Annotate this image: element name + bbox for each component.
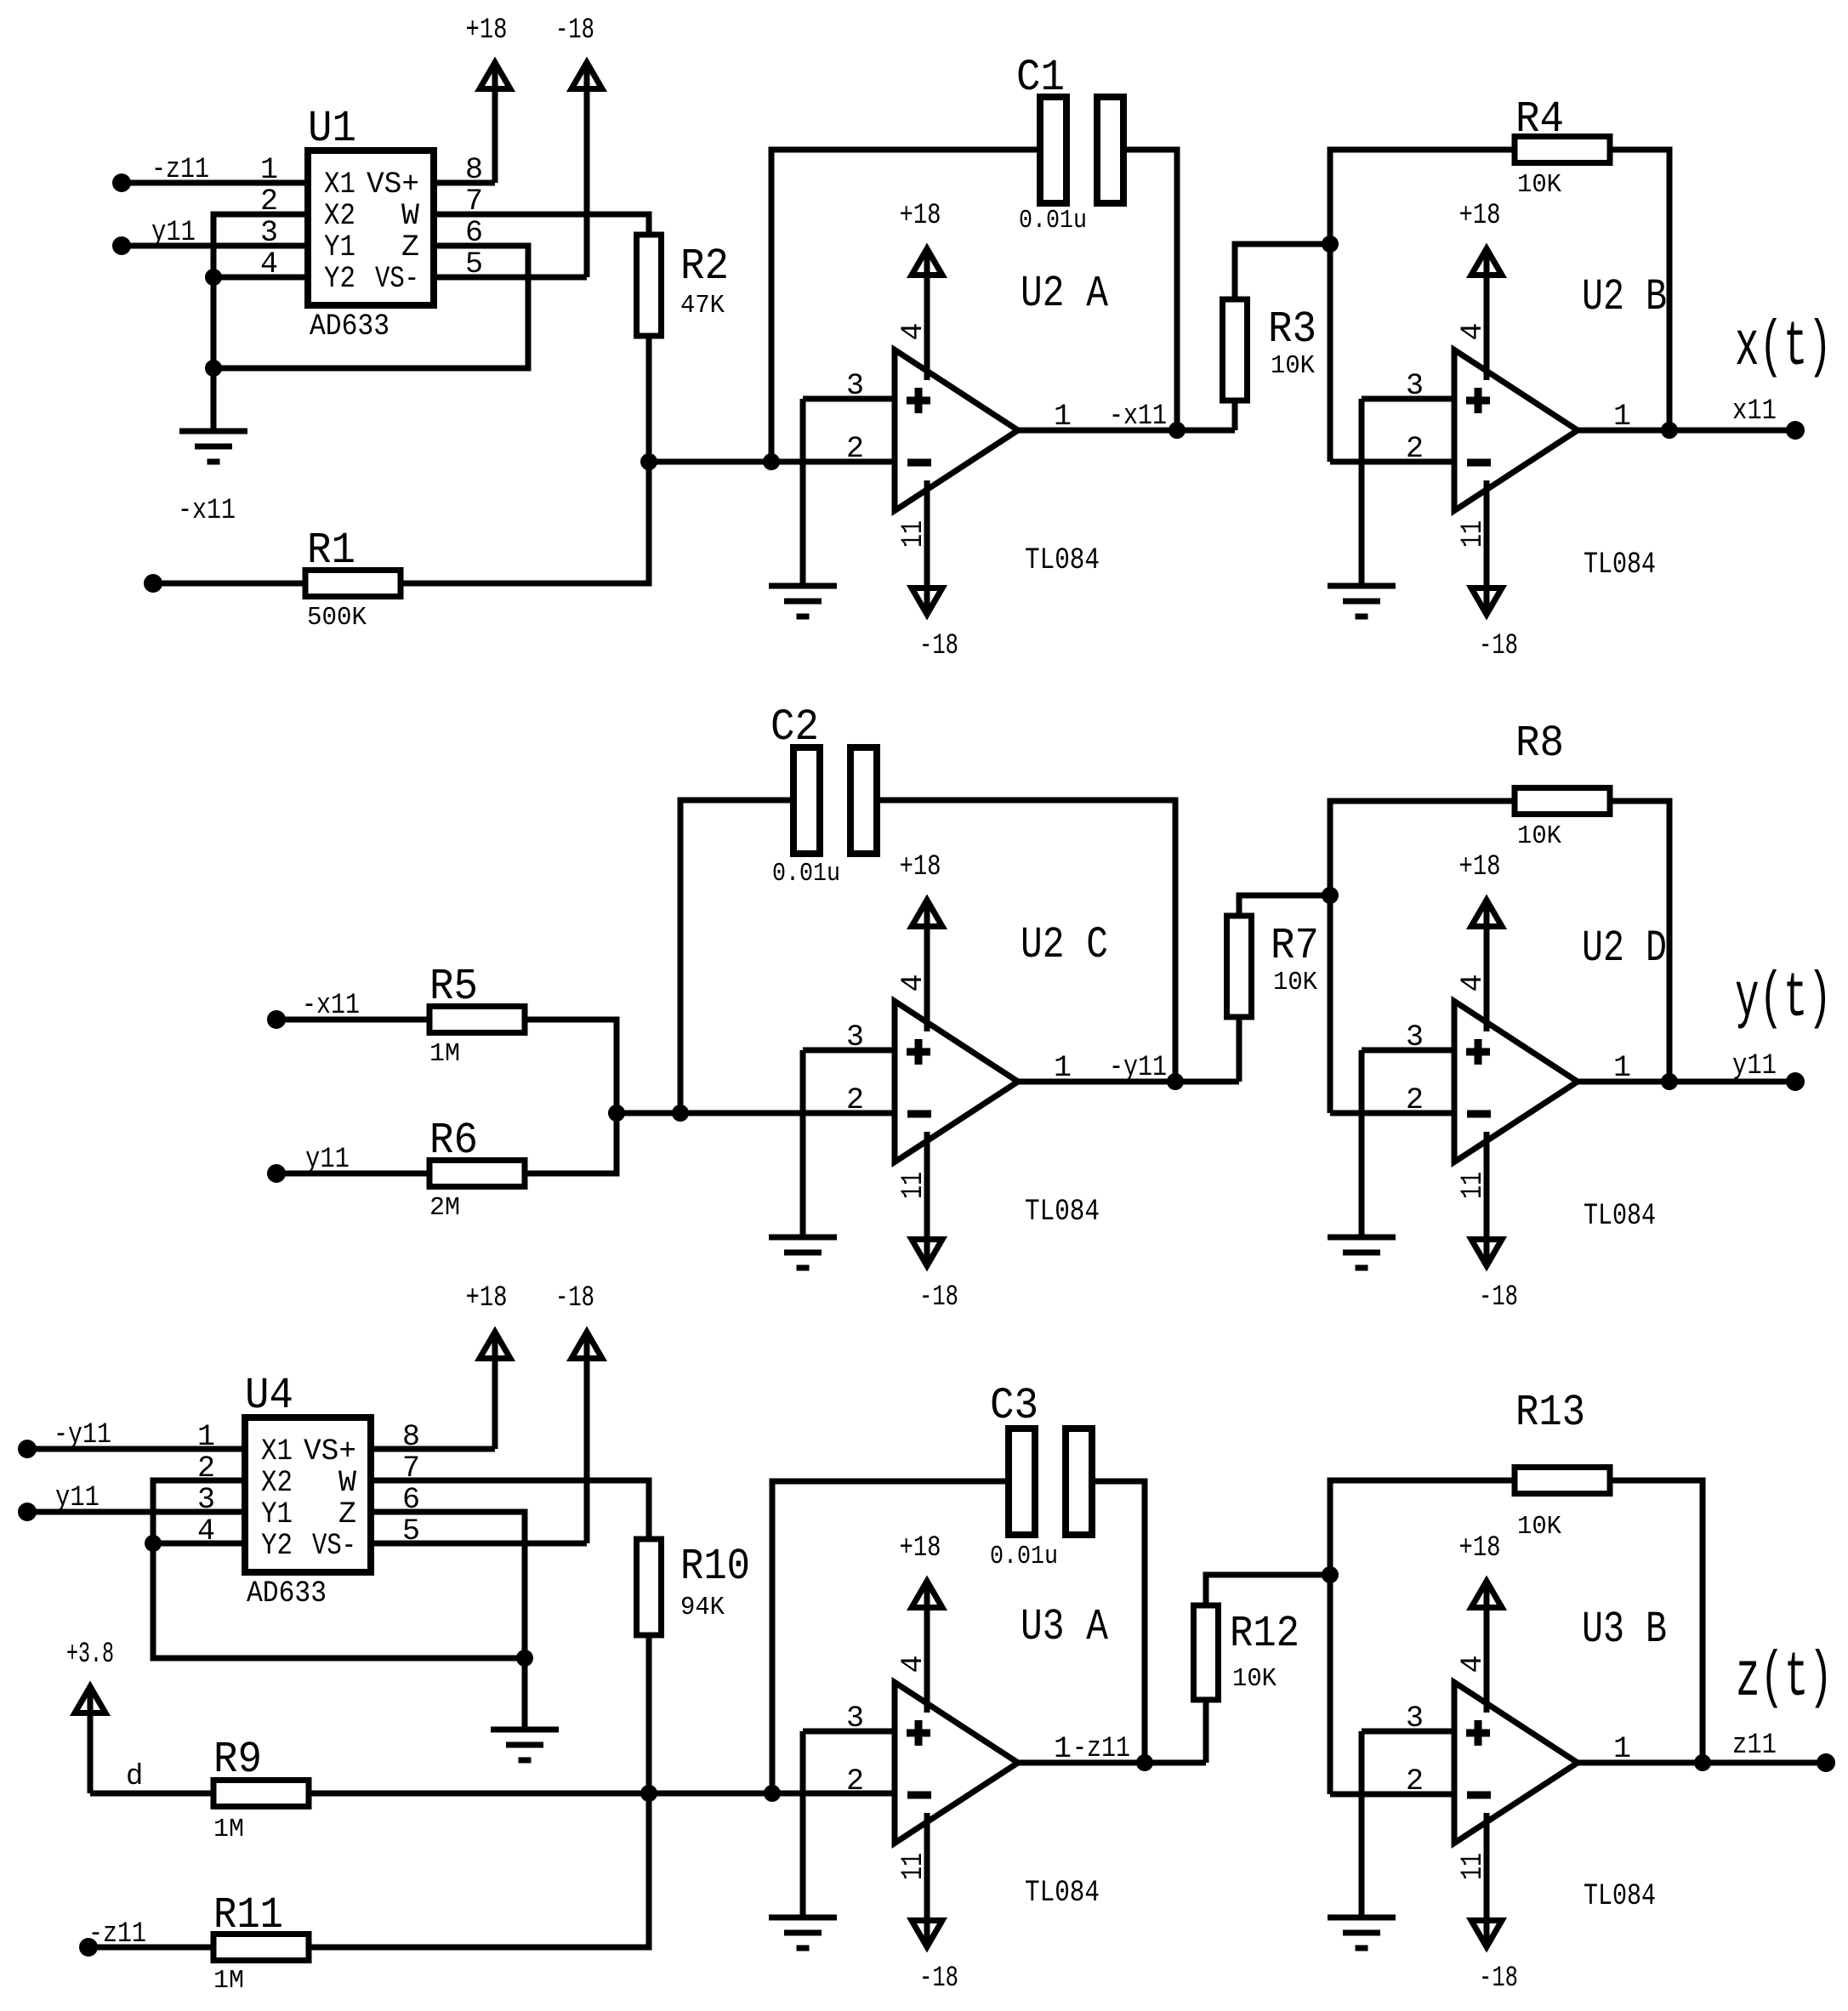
U3A +18 label	[900, 1532, 941, 1565]
IC U4 (AD633 multiplier)	[245, 1371, 371, 1572]
U2C pin number 2	[846, 1083, 864, 1117]
wire U2A output	[1018, 428, 1235, 434]
junction y11 node	[1661, 1073, 1678, 1090]
svg-text:+18: +18	[1459, 200, 1501, 232]
R11 value 1M	[213, 1966, 244, 1996]
resistor R1 input wire	[153, 581, 304, 587]
svg-text:+18: +18	[900, 851, 941, 883]
svg-text:y(t): y(t)	[1735, 963, 1832, 1035]
U1 pin numbers	[260, 153, 483, 281]
svg-text:U3 B: U3 B	[1582, 1605, 1667, 1655]
terminal y11 row2	[267, 1164, 286, 1183]
wire R7 top to U2D input	[1239, 895, 1330, 916]
svg-text:X2: X2	[324, 199, 355, 233]
C1 label	[1016, 53, 1065, 103]
svg-text:0.01u: 0.01u	[772, 859, 840, 889]
wire U2D +input to ground	[1359, 1050, 1365, 1237]
U2D TL084 label	[1584, 1199, 1656, 1233]
resistor R4 body	[1515, 137, 1610, 163]
svg-text:10K: 10K	[1517, 1512, 1561, 1542]
terminal -x11 row2	[267, 1010, 286, 1029]
ground under U4	[491, 1730, 559, 1760]
terminal y11 out	[1786, 1072, 1805, 1091]
wire -z11 to R11	[88, 1945, 213, 1951]
capacitor C3 right plate	[1066, 1429, 1092, 1535]
C3 value 0.01u	[990, 1542, 1058, 1571]
wire U1 Z feedback	[213, 246, 528, 368]
net label x11	[1732, 395, 1777, 428]
svg-text:500K: 500K	[307, 603, 367, 633]
capacitor C3 left plate	[1009, 1429, 1035, 1535]
R12 label	[1230, 1609, 1299, 1659]
svg-text:z11: z11	[1732, 1730, 1777, 1762]
wire U4 pin 4 Y2	[153, 1541, 245, 1547]
svg-text:AD633: AD633	[247, 1576, 327, 1611]
junction U4 pin4	[145, 1535, 162, 1552]
wire U2B output x11	[1578, 428, 1795, 434]
U2C pin number 3	[846, 1020, 864, 1054]
op-amp U3B	[1454, 1683, 1578, 1843]
U3B pin 11 power	[1471, 1813, 1502, 1947]
wire U2A +input to ground	[800, 399, 806, 586]
U3B pin 4 label	[1456, 1655, 1490, 1673]
junction R2/R1 node	[640, 453, 657, 470]
junction R5/R6 sum node	[608, 1105, 625, 1122]
U2A pin number 2	[846, 432, 864, 466]
U3A pin 4 label	[896, 1655, 930, 1673]
wire R1 to R2 node	[401, 462, 649, 583]
R10 label	[680, 1542, 750, 1592]
power label +18 row1 left	[466, 14, 508, 47]
svg-text:TL084: TL084	[1584, 548, 1656, 582]
svg-text:y11: y11	[305, 1144, 350, 1176]
svg-text:U1: U1	[308, 104, 356, 154]
U2B pin 11 label	[1456, 520, 1490, 548]
net label -y11	[54, 1419, 111, 1451]
svg-text:x(t): x(t)	[1735, 312, 1832, 383]
power label -18 row3 left	[555, 1282, 594, 1315]
U2C pin 11 label	[896, 1172, 930, 1199]
U2C +18 label	[900, 851, 941, 883]
svg-text:R4: R4	[1515, 94, 1564, 145]
U2D pin 4 label	[1456, 974, 1490, 991]
R8 label	[1515, 719, 1564, 769]
U3A pin 4 power	[912, 1582, 942, 1713]
U3A pin number 1	[1054, 1732, 1072, 1766]
svg-text:TL084: TL084	[1025, 543, 1100, 577]
U2C TL084 label	[1025, 1195, 1100, 1229]
junction R9/R10/R11 node	[640, 1785, 657, 1802]
svg-text:3: 3	[1406, 1701, 1424, 1735]
resistor R8 body	[1515, 788, 1610, 815]
U3A pin 11 label	[896, 1853, 930, 1880]
R11 label	[213, 1890, 283, 1940]
wire U2B inverting input	[1330, 459, 1454, 465]
terminal x11	[1786, 421, 1805, 440]
resistor R9 body	[213, 1781, 309, 1807]
R3 label	[1268, 304, 1316, 355]
R2 label	[680, 241, 729, 292]
C2 value 0.01u	[772, 859, 840, 889]
power label +3.8	[66, 1639, 114, 1671]
svg-text:Z: Z	[338, 1497, 356, 1531]
svg-text:-x11: -x11	[302, 990, 360, 1022]
junction -x11 node	[1169, 422, 1186, 439]
resistor R11 body	[213, 1934, 309, 1961]
U2C label	[1021, 920, 1108, 970]
svg-text:11: 11	[896, 1172, 930, 1199]
ground under U1	[179, 431, 247, 462]
svg-text:C1: C1	[1016, 53, 1065, 103]
ground under U2C	[769, 1237, 837, 1268]
junction z11 node	[1694, 1754, 1711, 1771]
net label y11 row3	[55, 1482, 100, 1514]
wire R3 top to U2B input	[1235, 244, 1330, 299]
svg-text:11: 11	[896, 520, 930, 548]
output label x(t)	[1735, 312, 1832, 383]
U4 pin numbers	[197, 1420, 420, 1548]
wire R5 to sum node	[525, 1020, 617, 1113]
svg-text:y11: y11	[151, 217, 196, 249]
wire U2D non-inverting input	[1362, 1048, 1454, 1054]
U3B pin number 3	[1406, 1701, 1424, 1735]
svg-text:4: 4	[1456, 1655, 1490, 1673]
svg-text:R11: R11	[213, 1890, 283, 1940]
wire U3A inverting input net	[309, 1791, 895, 1797]
U3A pin 11 power	[912, 1813, 942, 1947]
U2A label	[1021, 269, 1109, 319]
wire y11 input to U1 pin 3	[122, 243, 308, 249]
resistor R12 body	[1194, 1605, 1219, 1700]
C1 value 0.01u	[1019, 206, 1087, 236]
net label z11	[1732, 1730, 1777, 1762]
U2B -18 label	[1479, 630, 1518, 662]
svg-text:2: 2	[1406, 1764, 1424, 1798]
wire U4 Z pin branch	[371, 1512, 525, 1658]
svg-text:-18: -18	[919, 1963, 958, 1995]
svg-text:10K: 10K	[1517, 821, 1561, 851]
junction C3 left	[764, 1785, 781, 1802]
svg-text:-18: -18	[1479, 1281, 1518, 1314]
power label +18 row3 left	[466, 1282, 508, 1315]
svg-text:10K: 10K	[1232, 1664, 1277, 1694]
svg-text:TL084: TL084	[1025, 1876, 1100, 1910]
power label -18 row1 left	[555, 14, 594, 47]
svg-text:Z: Z	[401, 230, 419, 264]
svg-text:94K: 94K	[680, 1593, 725, 1622]
U2D pin number 3	[1406, 1020, 1424, 1054]
junction Z feedback	[205, 360, 222, 377]
svg-text:U2 C: U2 C	[1021, 920, 1108, 970]
wire U3A non-inverting input	[803, 1729, 895, 1735]
svg-text:-18: -18	[555, 14, 594, 47]
wire y11 to R6	[276, 1171, 429, 1177]
wire R12 bottom lead	[1203, 1700, 1209, 1763]
wire C3 right to output node	[1092, 1481, 1145, 1763]
ground under U2B	[1328, 586, 1396, 616]
resistor R10 body	[637, 1539, 662, 1635]
wire C2 left branch	[680, 800, 793, 1113]
svg-text:R9: R9	[213, 1735, 262, 1785]
svg-text:+18: +18	[466, 14, 508, 47]
svg-text:11: 11	[1456, 1853, 1490, 1880]
C3 label	[990, 1381, 1038, 1431]
wire U2B feedback left	[1330, 150, 1515, 462]
svg-text:-18: -18	[1479, 1963, 1518, 1995]
resistor R7 body	[1227, 916, 1252, 1017]
wire U2D inverting input	[1330, 1111, 1454, 1116]
svg-text:X1: X1	[261, 1434, 293, 1468]
svg-text:-z11: -z11	[1072, 1733, 1130, 1765]
svg-text:1M: 1M	[213, 1815, 244, 1844]
U3B TL084 label	[1584, 1879, 1656, 1913]
U2C pin 11 power	[912, 1132, 942, 1266]
wire U1 pin 8 VS+	[434, 180, 495, 186]
svg-text:C2: C2	[770, 702, 819, 753]
wire R3 bottom lead	[1232, 400, 1238, 430]
wire U2C inverting input net	[617, 1111, 895, 1116]
svg-text:Y1: Y1	[261, 1497, 293, 1531]
resistor R2 body	[637, 235, 662, 336]
terminal y11 row3	[18, 1503, 37, 1521]
wire U3B output z11	[1578, 1760, 1826, 1766]
capacitor C2 right plate	[850, 747, 877, 854]
net label y11 row2	[305, 1144, 350, 1176]
U2C pin number 1	[1054, 1051, 1072, 1085]
net label -x11 row2	[302, 990, 360, 1022]
U2B pin number 3	[1406, 369, 1424, 403]
svg-text:R1: R1	[307, 525, 355, 576]
svg-text:d: d	[126, 1761, 143, 1793]
junction C2 left	[672, 1105, 689, 1122]
wire U4 pin 8 VS+	[371, 1446, 495, 1452]
wire U1 pin 4 Y2	[213, 275, 308, 281]
output label z(t)	[1736, 1643, 1833, 1714]
svg-text:10K: 10K	[1517, 170, 1561, 200]
svg-text:2M: 2M	[429, 1193, 460, 1223]
svg-text:3: 3	[846, 369, 864, 403]
svg-text:AD633: AD633	[310, 310, 390, 344]
resistor R3 body	[1223, 299, 1248, 400]
svg-text:4: 4	[896, 974, 930, 991]
wire R10 bottom to node	[646, 1635, 652, 1793]
svg-text:-z11: -z11	[88, 1918, 146, 1951]
svg-text:-z11: -z11	[151, 154, 209, 186]
svg-text:11: 11	[1456, 1172, 1490, 1199]
junction R7/U2D node	[1322, 887, 1339, 904]
U2A TL084 label	[1025, 543, 1100, 577]
svg-text:R12: R12	[1230, 1609, 1299, 1659]
wire C1 right to output node	[1123, 150, 1177, 430]
net label -x11 row1	[178, 495, 236, 527]
U2B pin 4 power	[1471, 249, 1502, 381]
wire U3A +input to ground	[800, 1731, 806, 1917]
svg-text:-18: -18	[555, 1282, 594, 1315]
U2D pin 4 power	[1471, 900, 1502, 1032]
U2A pin number 1	[1054, 400, 1072, 434]
U2B pin 11 power	[1471, 480, 1502, 615]
U3A -18 label	[919, 1963, 958, 1995]
op-amp U2A	[895, 350, 1018, 511]
U3A pin number 3	[846, 1701, 864, 1735]
svg-text:10K: 10K	[1271, 351, 1315, 381]
wire y11 input to U4 pin 3	[27, 1509, 245, 1515]
R5 label	[429, 962, 478, 1012]
junction -z11 node	[1136, 1754, 1153, 1771]
R6 label	[429, 1116, 478, 1166]
svg-text:X1: X1	[324, 168, 355, 202]
terminal -z11 row3	[79, 1938, 98, 1957]
U2A pin 11 label	[896, 520, 930, 548]
U2A +18 label	[900, 200, 941, 232]
wire U2C non-inverting input	[803, 1048, 895, 1054]
svg-text:-18: -18	[919, 1281, 958, 1314]
svg-text:+18: +18	[466, 1282, 508, 1315]
svg-text:z(t): z(t)	[1736, 1643, 1833, 1714]
op-amp U2D	[1454, 1002, 1578, 1162]
svg-text:TL084: TL084	[1584, 1879, 1656, 1913]
svg-text:-x11: -x11	[1109, 400, 1167, 433]
svg-text:W: W	[401, 199, 419, 233]
junction R3/U2B node	[1322, 236, 1339, 253]
U2A pin 11 power	[912, 480, 942, 615]
svg-text:R13: R13	[1515, 1388, 1585, 1438]
U3B pin 11 label	[1456, 1853, 1490, 1880]
power -18 arrow row3 left	[571, 1332, 602, 1544]
R1 value 500K	[307, 603, 367, 633]
wire U3B inverting input	[1330, 1792, 1454, 1798]
svg-text:10K: 10K	[1273, 968, 1317, 997]
terminal z11	[1817, 1753, 1835, 1772]
svg-text:Y2: Y2	[324, 262, 355, 296]
svg-text:-18: -18	[1479, 630, 1518, 662]
junction -y11 node	[1167, 1073, 1184, 1090]
U3B label	[1582, 1605, 1667, 1655]
svg-text:2: 2	[846, 1083, 864, 1117]
svg-text:4: 4	[1456, 974, 1490, 991]
U1 value label AD633	[310, 310, 390, 344]
wire U2D feedback left	[1330, 801, 1515, 1113]
capacitor C2 left plate	[793, 747, 820, 854]
R10 value 94K	[680, 1593, 725, 1622]
net label -z11 row3	[88, 1918, 146, 1951]
svg-text:2: 2	[846, 432, 864, 466]
R7 label	[1271, 921, 1319, 971]
svg-text:3: 3	[1406, 369, 1424, 403]
svg-text:y11: y11	[55, 1482, 100, 1514]
wire R4 right to output	[1610, 150, 1669, 430]
svg-text:R5: R5	[429, 962, 478, 1012]
svg-text:R8: R8	[1515, 719, 1564, 769]
U2B pin number 2	[1406, 432, 1424, 466]
svg-text:VS+: VS+	[304, 1434, 356, 1468]
svg-text:Y2: Y2	[261, 1529, 293, 1563]
wire U3A output	[1018, 1760, 1206, 1766]
svg-text:-y11: -y11	[54, 1419, 111, 1451]
svg-text:R6: R6	[429, 1116, 478, 1166]
svg-text:2: 2	[1406, 432, 1424, 466]
svg-text:2: 2	[846, 1764, 864, 1798]
svg-text:R10: R10	[680, 1542, 750, 1592]
op-amp U2B	[1454, 350, 1578, 511]
R1 label	[307, 525, 355, 576]
svg-text:0.01u: 0.01u	[1019, 206, 1087, 236]
U2D label	[1582, 923, 1667, 974]
svg-text:X2: X2	[261, 1466, 293, 1500]
svg-text:4: 4	[1456, 322, 1490, 340]
wire R6 to sum node	[525, 1113, 617, 1173]
ground under U3A	[769, 1917, 837, 1948]
svg-text:C3: C3	[990, 1381, 1038, 1431]
R4 value 10K	[1517, 170, 1561, 200]
R13 value 10K	[1517, 1512, 1561, 1542]
junction x11 node	[1661, 422, 1678, 439]
wire U2A inverting input net	[649, 459, 895, 465]
C2 label	[770, 702, 819, 753]
svg-text:VS+: VS+	[367, 168, 419, 202]
wire U2C output	[1018, 1079, 1239, 1085]
wire U4 ground stem	[522, 1658, 528, 1730]
U3A label	[1021, 1602, 1109, 1652]
output label y(t)	[1735, 963, 1832, 1035]
U2B pin 4 label	[1456, 322, 1490, 340]
wire U4 pin 2 X2 branch	[153, 1480, 525, 1658]
U3B pin number 2	[1406, 1764, 1424, 1798]
U2B TL084 label	[1584, 548, 1656, 582]
svg-text:U3 A: U3 A	[1021, 1602, 1109, 1652]
svg-text:U4: U4	[245, 1371, 293, 1421]
svg-text:y11: y11	[1732, 1050, 1777, 1082]
svg-text:-x11: -x11	[178, 495, 236, 527]
net label -z11	[151, 154, 209, 186]
U3B pin 4 power	[1471, 1582, 1502, 1713]
resistor R6 body	[429, 1161, 525, 1187]
svg-text:+18: +18	[900, 200, 941, 232]
R4 label	[1515, 94, 1564, 145]
net label -y11	[1109, 1052, 1167, 1084]
wire R2 bottom to inverting node	[646, 336, 652, 462]
wire U2C +input to ground	[800, 1050, 806, 1237]
U2D pin number 1	[1613, 1051, 1631, 1085]
svg-text:VS-: VS-	[312, 1529, 356, 1563]
net label -x11	[1109, 400, 1167, 433]
svg-text:4: 4	[896, 322, 930, 340]
svg-text:0.01u: 0.01u	[990, 1542, 1058, 1571]
net label -z11 out	[1072, 1733, 1130, 1765]
terminal y11 row1	[112, 236, 131, 255]
wire U3B non-inverting input	[1362, 1729, 1454, 1735]
svg-text:R2: R2	[680, 241, 729, 292]
svg-text:11: 11	[1456, 520, 1490, 548]
wire U1 pin 2 X2 to ground rail	[213, 214, 308, 431]
op-amp U2C	[895, 1002, 1018, 1162]
svg-text:47K: 47K	[680, 291, 725, 321]
svg-text:3: 3	[846, 1020, 864, 1054]
power +18 arrow row1 left	[480, 63, 510, 184]
wire -z11 input to U1 pin 1	[122, 180, 308, 186]
resistor R5 body	[429, 1007, 525, 1033]
R2 value 47K	[680, 291, 725, 321]
junction R12/U3B node	[1322, 1566, 1339, 1583]
power +18 arrow row3 left	[480, 1332, 510, 1450]
U3A TL084 label	[1025, 1876, 1100, 1910]
junction U1 pin4	[205, 269, 222, 286]
wire U3B feedback left	[1330, 1480, 1515, 1794]
power -18 arrow row1 left	[571, 63, 602, 278]
U3A pin number 2	[846, 1764, 864, 1798]
svg-text:4: 4	[896, 1655, 930, 1673]
svg-text:1M: 1M	[429, 1039, 460, 1069]
